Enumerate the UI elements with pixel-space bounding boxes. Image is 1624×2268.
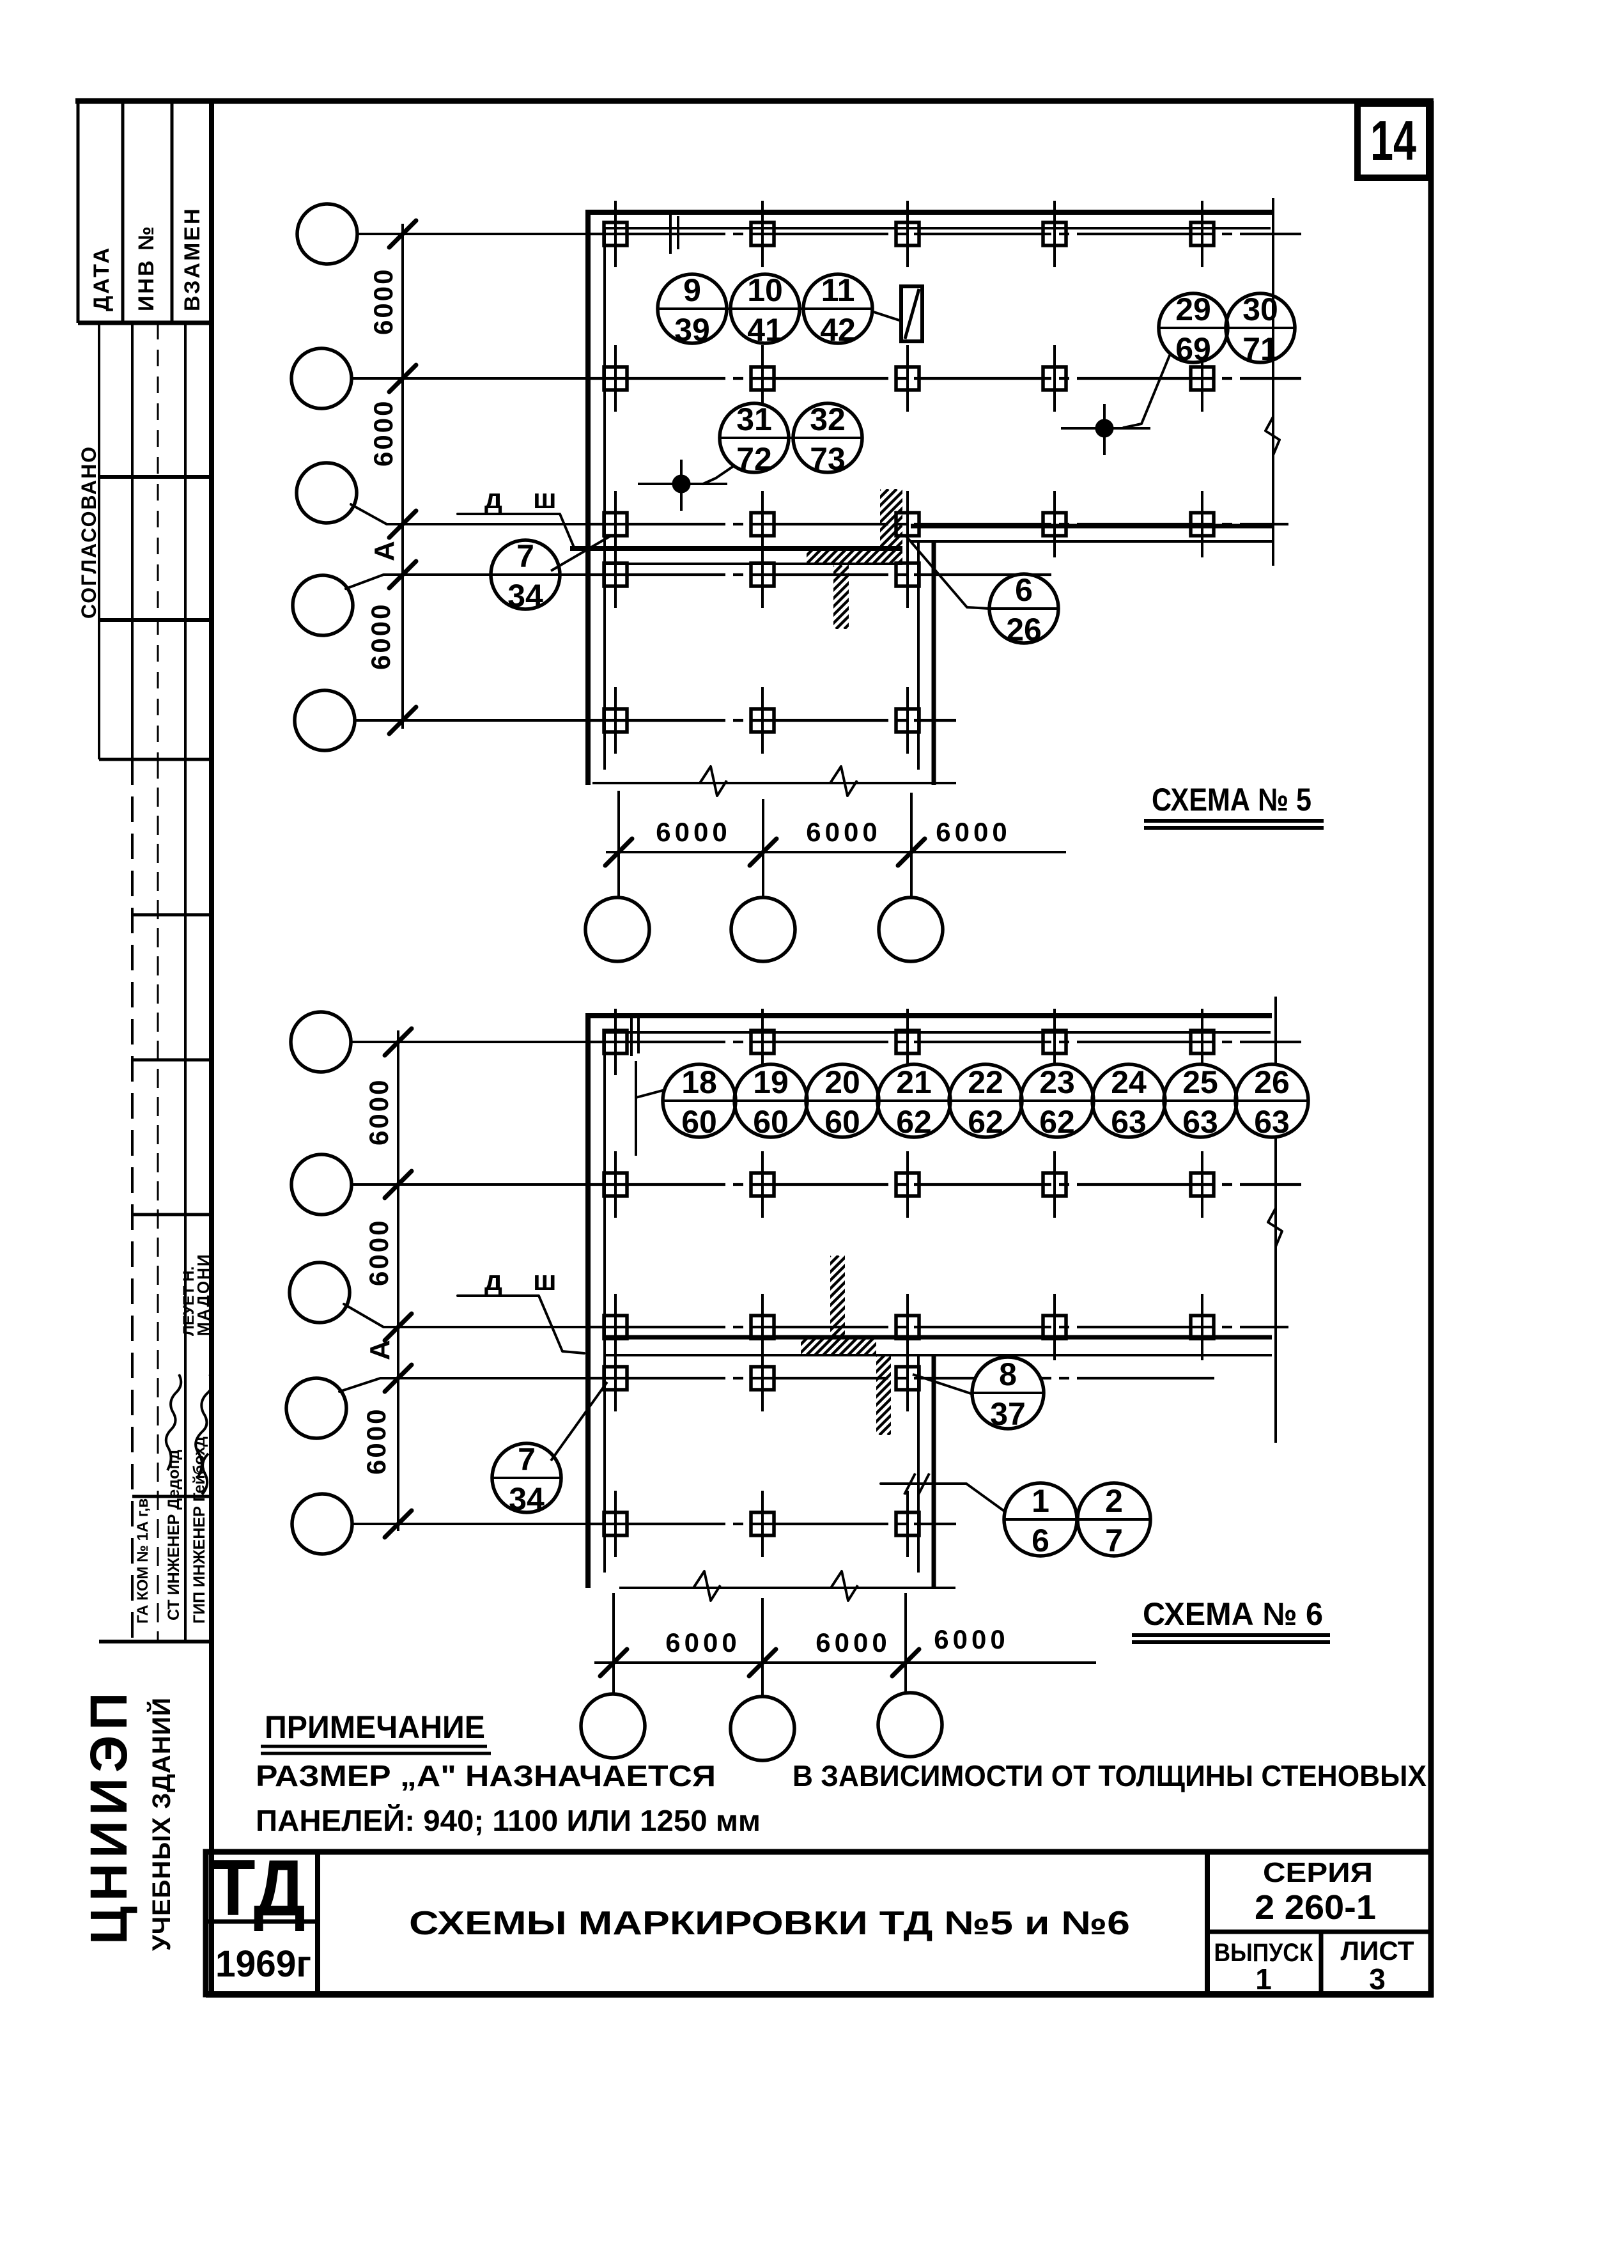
- svg-text:62: 62: [896, 1104, 932, 1140]
- scheme6 ДШ leader: [458, 1296, 584, 1353]
- svg-text:25: 25: [1182, 1064, 1218, 1100]
- svg-text:6000: 6000: [366, 603, 396, 670]
- scheme5 right axis break: [1265, 417, 1280, 455]
- svg-text:ГА КОМ № 1А г,в: ГА КОМ № 1А г,в: [134, 1498, 151, 1624]
- scheme5 marker 7/34: [491, 538, 560, 614]
- svg-text:7: 7: [516, 538, 534, 574]
- scheme6 column lower x1420 y2384: [896, 1491, 919, 1557]
- scheme6 axis row4 solid: [399, 1377, 588, 1379]
- scheme5 column r3 x1193: [751, 491, 774, 557]
- scheme6 left wall inner: [603, 1032, 606, 1573]
- svg-text:6000: 6000: [936, 817, 1010, 847]
- svg-text:ш: ш: [533, 483, 557, 515]
- frame bottom border: [206, 1991, 1434, 1998]
- scheme5 column r2 x963: [604, 345, 627, 412]
- svg-text:СОГЛАСОВАНО: СОГЛАСОВАНО: [77, 446, 100, 619]
- svg-text:ГИП ИНЖЕНЕР Гейбохд: ГИП ИНЖЕНЕР Гейбохд: [190, 1436, 208, 1624]
- scheme6 axis1 leader: [351, 1041, 399, 1043]
- svg-text:62: 62: [968, 1104, 1003, 1140]
- scheme6 bottom axis stub 3: [904, 1593, 907, 1693]
- scheme5 survey point 2: [1061, 404, 1150, 455]
- scheme5 leader 31/72 to point1: [703, 466, 734, 484]
- svg-text:СЕРИЯ: СЕРИЯ: [1263, 1857, 1373, 1888]
- svg-text:19: 19: [753, 1064, 789, 1100]
- svg-text:60: 60: [753, 1104, 789, 1140]
- scheme5 leader 6/26: [906, 536, 989, 609]
- svg-text:6000: 6000: [656, 817, 731, 847]
- scheme5 axis4 leader bend: [346, 575, 404, 589]
- stamp v-line x290: [184, 323, 187, 759]
- svg-text:29: 29: [1175, 291, 1211, 327]
- stamp v-line x247 lower: [157, 759, 159, 1642]
- scheme5 axis row3: [588, 523, 1288, 525]
- svg-text:ПРИМЕЧАНИЕ: ПРИМЕЧАНИЕ: [265, 1709, 485, 1745]
- stamp v-line x207: [131, 323, 134, 759]
- scheme6 column r2 x963: [604, 1151, 627, 1218]
- title block: [206, 1852, 1431, 1994]
- svg-text:ВЗАМЕН: ВЗАМЕН: [180, 206, 205, 311]
- scheme6 top wall joint tick 2: [637, 1018, 640, 1053]
- svg-text:СХЕМА № 6: СХЕМА № 6: [1143, 1596, 1323, 1632]
- label6 underline 1: [1132, 1633, 1330, 1637]
- scheme5 column r3 x963: [604, 491, 627, 557]
- svg-text:60: 60: [824, 1104, 860, 1140]
- scheme6 dim tick y=1853: [385, 1171, 412, 1198]
- scheme5 markers 31/72 32/73: [720, 401, 862, 477]
- scheme6 axis row1: [588, 1041, 1301, 1043]
- scheme5 axis circle 1: [297, 204, 357, 264]
- scheme5 axis row5 solid: [404, 719, 588, 722]
- scheme6 column r1 x1193: [751, 1009, 774, 1075]
- svg-text:37: 37: [990, 1396, 1026, 1432]
- scheme5 column lower x963 y1127: [604, 687, 627, 754]
- scheme6 leader 18/60: [636, 1090, 665, 1098]
- scheme5 left wall inner: [603, 228, 606, 770]
- svg-text:д: д: [484, 1265, 502, 1296]
- scheme5 ДШ leader: [458, 514, 584, 548]
- svg-text:63: 63: [1182, 1104, 1218, 1140]
- scheme6 bottom wall outer: [605, 1335, 1272, 1340]
- scheme5 lower-wing top wall inner: [605, 563, 902, 565]
- scheme6 axis circle 2: [291, 1154, 352, 1215]
- svg-text:3: 3: [1369, 1962, 1386, 1996]
- stamp v-line 2: [121, 101, 125, 323]
- scheme5 vertical dimension line: [401, 224, 404, 729]
- scheme6 column r3 x1650: [1043, 1294, 1066, 1360]
- scheme5 dim tick y=366: [389, 221, 416, 247]
- scheme5 axis2 leader: [352, 377, 404, 380]
- stamp signature squiggle 2: [196, 1374, 212, 1477]
- scheme5 top wall joint tick 1: [669, 210, 672, 254]
- scheme5 column lower x1420 y1127: [896, 687, 919, 754]
- scheme6 column lower x1420 y2156: [896, 1345, 919, 1411]
- scheme5 column r2 x1420: [896, 345, 919, 412]
- scheme6 axis5 leader: [352, 1523, 399, 1525]
- svg-text:1: 1: [1032, 1483, 1049, 1519]
- scheme5 dim tick y=899: [389, 561, 416, 588]
- svg-text:31: 31: [736, 401, 772, 437]
- title block divider x497: [315, 1852, 320, 1994]
- scheme6 axis4 leader bend: [339, 1378, 399, 1392]
- scheme6 axis row1 solid: [399, 1041, 588, 1043]
- scheme6 markers 1/6 2/7: [1004, 1483, 1150, 1558]
- scheme6 leader 8/37: [913, 1374, 971, 1394]
- scheme6 dim tick y=2156: [385, 1365, 412, 1392]
- scheme5 bottom dimension line: [606, 851, 1066, 853]
- scheme5 wall hatch vertical lower: [769, 565, 916, 629]
- svg-text:24: 24: [1111, 1064, 1147, 1100]
- scheme6 dim tick y=2076: [385, 1314, 412, 1340]
- scheme5 column r2 x1650: [1043, 345, 1066, 412]
- scheme5 column lower x1420 y899: [896, 541, 919, 608]
- scheme5 marker 6/26: [989, 572, 1058, 648]
- svg-text:6000: 6000: [665, 1627, 740, 1658]
- svg-text:д: д: [484, 483, 502, 515]
- svg-text:ш: ш: [533, 1265, 557, 1296]
- scheme6 leader 18/60 vertical: [635, 1061, 637, 1156]
- stamp v-line 3: [171, 101, 174, 323]
- svg-text:32: 32: [810, 401, 846, 437]
- scheme6 column r1 x963: [604, 1009, 627, 1075]
- scheme6 top wall inner: [603, 1031, 1271, 1034]
- scheme6 bottom break zigzag 1: [693, 1571, 720, 1601]
- svg-text:26: 26: [1006, 612, 1042, 648]
- scheme5 axis row2: [588, 377, 1301, 380]
- scheme5 column r3 x1650: [1043, 491, 1066, 557]
- svg-text:6000: 6000: [364, 1078, 394, 1146]
- scheme5 dim tick y=820: [389, 511, 416, 538]
- scheme6 lower-wing right wall inner: [917, 1354, 920, 1573]
- svg-text:6000: 6000: [816, 1627, 890, 1658]
- scheme6 bottom dim tick x=1193: [749, 1649, 776, 1676]
- frame left border: [209, 101, 214, 1997]
- scheme5 bottom axis circle 3: [879, 897, 943, 961]
- scheme5 axis row3 solid: [404, 523, 588, 525]
- scheme5 column r2 x1881: [1191, 345, 1214, 412]
- scheme5 right axis line: [1272, 198, 1274, 566]
- svg-text:39: 39: [674, 312, 710, 348]
- scheme5 right axis over circle: [1272, 289, 1274, 371]
- stamp v-line x290 lower: [184, 759, 187, 1642]
- stamp v-line x247 dashed: [157, 323, 159, 759]
- scheme5 leader 29/69 to point2: [1124, 355, 1170, 428]
- label underline 2: [1144, 826, 1324, 830]
- scheme5 axis row1: [588, 233, 1301, 235]
- scheme6 axis row3 solid: [399, 1326, 588, 1328]
- svg-text:18: 18: [681, 1064, 717, 1100]
- scheme6 bottom axis circle 1: [581, 1694, 645, 1758]
- scheme5 column r1 x1650: [1043, 201, 1066, 267]
- scheme6 marker 8/37: [972, 1356, 1044, 1432]
- scheme6 markers 18/60 .. 26/63: [663, 1064, 1308, 1140]
- svg-text:6: 6: [1015, 572, 1033, 608]
- stamp v-line x155: [98, 323, 100, 759]
- scheme5 bottom break line: [592, 782, 956, 784]
- scheme5 bottom axis stub 3: [910, 793, 913, 897]
- scheme6 left wall outer: [585, 1013, 591, 1588]
- scheme6 wall hatch vertical upper: [748, 1255, 930, 1337]
- scheme6 axis circle 4: [286, 1378, 346, 1438]
- scheme5 lower-wing right wall inner: [917, 540, 920, 770]
- frame right border: [1428, 101, 1434, 1997]
- scheme6 axis row5 solid: [399, 1523, 588, 1525]
- scheme5 axis circle 4: [293, 575, 353, 635]
- scheme5 top wall outer: [588, 210, 1272, 215]
- svg-text:14: 14: [1370, 109, 1416, 172]
- svg-text:26: 26: [1254, 1064, 1290, 1100]
- scheme5 bottom axis stub 1: [617, 791, 620, 897]
- scheme6 column lower x1193 y2156: [751, 1345, 774, 1411]
- svg-text:А: А: [364, 1340, 396, 1360]
- scheme5 bottom axis stub 2: [762, 799, 764, 897]
- scheme6 axis circle 1: [291, 1012, 351, 1072]
- scheme6 lower-wing right wall outer: [932, 1354, 936, 1588]
- scheme5 markers 29/69 30/71: [1159, 291, 1295, 367]
- scheme6 column r2 x1420: [896, 1151, 919, 1218]
- scheme6 axis2 leader: [352, 1183, 399, 1186]
- svg-text:42: 42: [820, 312, 856, 348]
- svg-text:СТ ИНЖЕНЕР Дедопд: СТ ИНЖЕНЕР Дедопд: [165, 1449, 183, 1620]
- svg-text:ИНВ №: ИНВ №: [134, 224, 159, 311]
- scheme5 axis circle 3: [297, 463, 357, 523]
- note underline 2: [261, 1752, 491, 1755]
- scheme5 dim tick y=592: [389, 365, 416, 392]
- stamp v-line x207 lower: [131, 759, 134, 1642]
- stamp signature squiggle 1: [166, 1374, 181, 1470]
- scheme5 bottom dim tick x=1194: [750, 839, 777, 866]
- scheme6 bottom axis stub 2: [761, 1598, 764, 1697]
- scheme5 axis5 leader: [355, 719, 404, 722]
- scheme6 axis row5: [588, 1523, 956, 1525]
- scheme5 column r2 x1193: [751, 345, 774, 412]
- svg-text:63: 63: [1111, 1104, 1147, 1140]
- scheme6 dim tick y=2384: [385, 1511, 412, 1537]
- scheme6 column r2 x1881: [1191, 1151, 1214, 1218]
- scheme5 column r3 x1881: [1191, 491, 1214, 557]
- scheme6 column r1 x1881: [1191, 1009, 1214, 1075]
- scheme6 column r3 x963: [604, 1294, 627, 1360]
- svg-text:7: 7: [518, 1441, 536, 1477]
- scheme6 bottom dim tick x=1417: [892, 1649, 919, 1676]
- scheme5 leader 11/42 to tag: [872, 311, 901, 321]
- svg-text:60: 60: [681, 1104, 717, 1140]
- scheme5 lower-wing top wall outer: [570, 546, 902, 551]
- scheme5 column lower x963 y899: [604, 541, 627, 608]
- scheme6 bottom axis circle 3: [878, 1693, 942, 1757]
- scheme5 column lower x1193 y1127: [751, 687, 774, 754]
- scheme5 bottom break zigzag 1: [700, 766, 727, 796]
- scheme6 wall hatch vertical lower: [796, 1355, 976, 1435]
- stamp h-line y2341: [132, 1495, 212, 1498]
- svg-text:МАДОНИ: МАДОНИ: [194, 1253, 213, 1336]
- scheme6 axis circle 5: [292, 1494, 352, 1554]
- scheme5 wall hatch vertical upper: [821, 489, 963, 548]
- scheme5 markers 9/39 10/41 11/42: [658, 272, 872, 348]
- scheme5 bottom dim tick x=1426: [898, 839, 925, 866]
- title block divider y3006: [206, 1920, 318, 1924]
- scheme6 leader 1/6: [881, 1484, 1003, 1511]
- note underline 1: [261, 1745, 487, 1748]
- scheme6 marker 7/34: [492, 1441, 561, 1517]
- stamp h-line y1658: [132, 1059, 212, 1062]
- scheme6 top wall outer: [586, 1013, 1272, 1018]
- scheme5 column r1 x1193: [751, 201, 774, 267]
- scheme6 bottom dimension line: [594, 1661, 1096, 1664]
- scheme6 axis row2: [588, 1183, 1301, 1186]
- scheme6 axis row2 solid: [399, 1183, 588, 1186]
- scheme5 bottom break zigzag 2: [830, 766, 857, 796]
- scheme6 column r2 x1650: [1043, 1151, 1066, 1218]
- svg-text:72: 72: [736, 441, 772, 477]
- frame top border: [75, 98, 1434, 104]
- svg-text:34: 34: [507, 578, 543, 614]
- svg-text:2 260-1: 2 260-1: [1255, 1888, 1376, 1927]
- scheme5 left wall outer: [585, 210, 591, 785]
- stamp h-line y970: [99, 618, 212, 622]
- stamp h-line y1900: [132, 1213, 212, 1216]
- svg-text:41: 41: [747, 312, 783, 348]
- sheet number box 14: [1357, 104, 1429, 178]
- svg-text:ПАНЕЛЕЙ: 940; 1100 ИЛИ 125: ПАНЕЛЕЙ: 940; 1100 ИЛИ 1250 мм: [256, 1804, 761, 1837]
- svg-text:ДАТА: ДАТА: [89, 246, 114, 311]
- stamp h-line y2568: [99, 1640, 212, 1643]
- scheme5 dim tick y=1127: [389, 707, 416, 734]
- label6 underline 2: [1132, 1640, 1330, 1644]
- scheme5 bottom axis circle 1: [585, 897, 649, 961]
- scheme5 column lower x1193 y899: [751, 541, 774, 608]
- label underline 1: [1144, 819, 1324, 823]
- scheme5 column r1 x1881: [1191, 201, 1214, 267]
- scheme6 column lower x1193 y2384: [751, 1491, 774, 1557]
- scheme6 column r2 x1193: [751, 1151, 774, 1218]
- scheme6 axis row4: [588, 1377, 1214, 1379]
- svg-text:73: 73: [810, 441, 846, 477]
- scheme5 bottom axis circle 2: [731, 897, 795, 961]
- scheme6 bottom axis stub 1: [612, 1593, 615, 1694]
- stamp v-line outer: [77, 101, 80, 323]
- svg-text:21: 21: [896, 1064, 932, 1100]
- scheme5 top wall joint tick 2: [677, 216, 679, 249]
- scheme5 panel tag rectangle: [901, 286, 922, 341]
- scheme5 column r1 x1420: [896, 201, 919, 267]
- svg-text:ЦНИИЭП: ЦНИИЭП: [80, 1688, 138, 1945]
- scheme6 column r1 x1650: [1043, 1009, 1066, 1075]
- scheme5 axis3 leader bend: [351, 504, 404, 524]
- svg-text:СХЕМЫ МАРКИРОВКИ ТД №5 и №6: СХЕМЫ МАРКИРОВКИ ТД №5 и №6: [409, 1905, 1130, 1942]
- svg-text:1969г: 1969г: [215, 1943, 311, 1985]
- scheme6 bottom break zigzag 2: [831, 1571, 858, 1601]
- stamp h-line y505: [78, 321, 212, 325]
- svg-text:8: 8: [999, 1356, 1017, 1392]
- scheme5 axis circle 5: [295, 690, 355, 750]
- scheme5 leader 7/34: [551, 536, 611, 571]
- scheme6 column r3 x1420: [896, 1294, 919, 1360]
- scheme6 bottom wall inner: [605, 1354, 1272, 1356]
- scheme5 upper-wing bottom wall inner: [911, 540, 1272, 543]
- svg-text:63: 63: [1254, 1104, 1290, 1140]
- title block divider x1889: [1205, 1852, 1210, 1994]
- scheme5 wall hatch horizontal: [789, 547, 923, 565]
- stamp signature squiggle 3: [202, 1454, 208, 1495]
- svg-text:9: 9: [683, 272, 701, 308]
- scheme5 axis row2 solid: [404, 377, 588, 380]
- stamp h-line y746: [99, 475, 212, 479]
- title block divider x2067: [1319, 1932, 1324, 1994]
- scheme5 axis row5: [588, 719, 956, 722]
- scheme5 lower-wing right wall outer: [932, 540, 936, 785]
- svg-text:А: А: [369, 541, 400, 561]
- scheme6 column lower x963 y2156: [604, 1345, 627, 1411]
- scheme6 leader 7/34: [551, 1382, 607, 1461]
- svg-text:6000: 6000: [934, 1624, 1009, 1654]
- svg-text:ЛИСТ: ЛИСТ: [1341, 1936, 1414, 1966]
- svg-text:В ЗАВИСИМОСТИ ОТ ТОЛЩИНЫ СТЕНО: В ЗАВИСИМОСТИ ОТ ТОЛЩИНЫ СТЕНОВЫХ: [793, 1759, 1427, 1792]
- scheme6 vertical dimension line: [397, 1030, 399, 1531]
- scheme6 wall hatch horizontal: [780, 1336, 901, 1356]
- scheme6 column r3 x1193: [751, 1294, 774, 1360]
- scheme5 top wall inner: [605, 227, 1271, 229]
- scheme6 column r1 x1420: [896, 1009, 919, 1075]
- svg-text:20: 20: [824, 1064, 860, 1100]
- scheme6 axis circle 3: [290, 1262, 350, 1323]
- svg-text:23: 23: [1039, 1064, 1075, 1100]
- scheme6 axis row3: [588, 1326, 1288, 1328]
- scheme6 bottom dim tick x=960: [600, 1649, 627, 1676]
- scheme6 bottom axis circle 2: [731, 1697, 794, 1760]
- scheme5 axis circle 2: [291, 348, 352, 408]
- svg-text:6000: 6000: [361, 1408, 391, 1475]
- scheme5 column r3 x1420: [896, 491, 919, 557]
- svg-text:10: 10: [747, 272, 783, 308]
- svg-text:69: 69: [1175, 331, 1211, 367]
- scheme5 axis1 leader: [357, 233, 404, 235]
- svg-text:РАЗМЕР „А" НАЗНАЧАЕТСЯ: РАЗМЕР „А" НАЗНАЧАЕТСЯ: [256, 1759, 716, 1792]
- scheme5 column r1 x963: [604, 201, 627, 267]
- svg-text:6000: 6000: [364, 1219, 394, 1286]
- svg-text:6000: 6000: [368, 400, 398, 467]
- scheme6 wall break ticks at leader: [904, 1473, 915, 1495]
- scheme5 survey point 1: [638, 460, 727, 511]
- scheme5 axis row4: [588, 573, 1051, 576]
- scheme5 axis row1 solid: [404, 233, 588, 235]
- scheme6 column r3 x1881: [1191, 1294, 1214, 1360]
- scheme6 dim tick y=1630: [385, 1029, 412, 1055]
- scheme6 column lower x963 y2384: [604, 1491, 627, 1557]
- svg-text:1: 1: [1255, 1962, 1272, 1996]
- scheme5 upper-wing bottom wall outer: [911, 524, 1272, 529]
- stamp h-line y1188: [99, 758, 212, 761]
- svg-text:2: 2: [1105, 1483, 1123, 1519]
- svg-text:34: 34: [509, 1481, 545, 1517]
- svg-text:7: 7: [1105, 1523, 1123, 1558]
- svg-text:11: 11: [821, 272, 855, 308]
- scheme6 right axis break: [1268, 1208, 1282, 1247]
- svg-text:6: 6: [1032, 1523, 1049, 1558]
- svg-text:6000: 6000: [368, 268, 398, 335]
- svg-text:6000: 6000: [806, 817, 881, 847]
- scheme5 bottom dim tick x=968: [605, 839, 632, 866]
- title block divider y3022: [1207, 1930, 1431, 1934]
- scheme6 bottom break line: [619, 1587, 955, 1589]
- svg-text:62: 62: [1039, 1104, 1075, 1140]
- scheme6 top wall joint tick 1: [630, 1013, 633, 1056]
- scheme6 axis3 leader bend: [344, 1304, 399, 1327]
- stamp h-line y1431: [132, 913, 212, 917]
- svg-text:22: 22: [968, 1064, 1003, 1100]
- scheme6 right axis line: [1274, 997, 1277, 1443]
- svg-text:СХЕМА № 5: СХЕМА № 5: [1152, 782, 1311, 818]
- svg-text:УЧЕБНЫХ ЗДАНИЙ: УЧЕБНЫХ ЗДАНИЙ: [146, 1697, 176, 1951]
